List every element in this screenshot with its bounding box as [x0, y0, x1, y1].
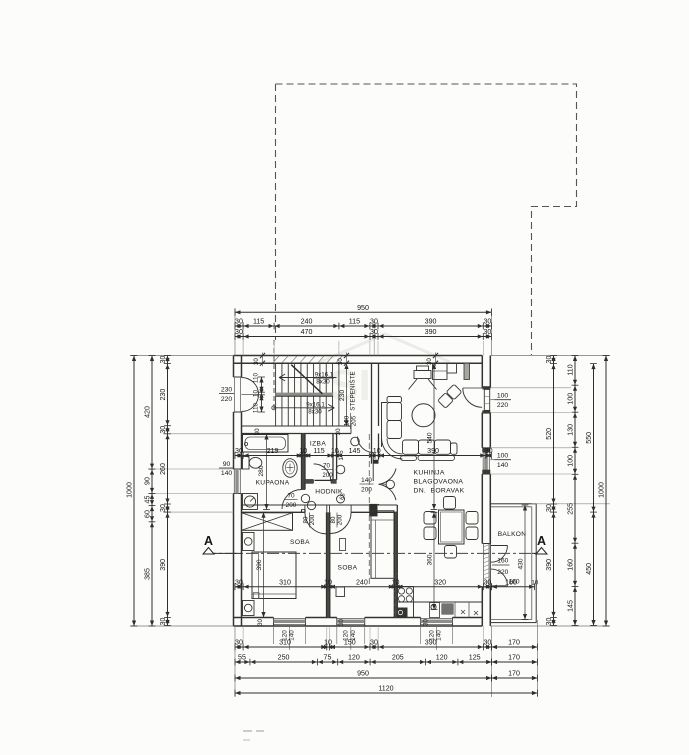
svg-text:140: 140	[221, 470, 233, 477]
wall hatch over stair	[273, 356, 279, 363]
bed soba1	[252, 552, 296, 599]
svg-text:430: 430	[518, 558, 525, 569]
living interior dim 540 vertical line	[433, 364, 435, 510]
bottom window dim 120/140 soba1	[273, 627, 275, 644]
svg-text:30: 30	[235, 639, 243, 647]
extension lines bottom	[234, 626, 236, 697]
left dimension column overall 1000	[133, 356, 135, 627]
svg-text:205: 205	[351, 415, 358, 426]
svg-text:385: 385	[144, 568, 152, 580]
svg-text:390: 390	[425, 318, 437, 326]
extension lines left	[130, 355, 234, 357]
armchair diamond 1	[438, 393, 454, 409]
balcony door jambs right wall	[482, 543, 490, 545]
svg-text:230: 230	[159, 389, 167, 401]
svg-text:220: 220	[221, 396, 233, 403]
svg-text:30: 30	[338, 619, 345, 626]
washing machine	[243, 494, 258, 510]
window right wall kitchen 100/140	[482, 447, 490, 449]
outer wall right between entry door and window	[481, 413, 483, 448]
hodnik-kitchen double door arcs	[379, 469, 397, 485]
hodnik lamp circle 1	[301, 494, 309, 502]
svg-text:100: 100	[567, 393, 575, 405]
svg-text:1000: 1000	[126, 482, 134, 498]
dining chair left bottom	[424, 527, 436, 540]
interior wall izba right vertical	[332, 434, 334, 480]
svg-text:70: 70	[287, 493, 295, 500]
wardrobe soba1 with cross	[242, 513, 293, 531]
stair mid landing gray band	[276, 393, 334, 397]
TV stand legs diagonals	[409, 379, 418, 390]
extension lines right	[490, 355, 610, 357]
svg-text:140: 140	[497, 462, 509, 469]
sofa backrest vertical	[382, 403, 388, 448]
svg-text:205: 205	[392, 654, 404, 662]
svg-text:30: 30	[545, 504, 553, 512]
sofa cushion h3	[435, 440, 451, 454]
svg-text:100: 100	[497, 453, 509, 460]
sofa corner arc outer	[382, 438, 403, 459]
soba1 interior dim 390 vertical	[263, 512, 265, 617]
outer wall right above entry door	[481, 356, 483, 388]
dashed outline of upper floor / roof projection	[276, 84, 577, 355]
stool soba2	[336, 587, 345, 597]
window bottom wall soba1 120/140	[273, 618, 275, 627]
svg-text:220: 220	[497, 569, 508, 576]
svg-text:30: 30	[257, 619, 264, 626]
svg-text:200: 200	[309, 514, 316, 525]
svg-text:115: 115	[253, 318, 264, 326]
svg-text:140: 140	[361, 477, 372, 484]
kupaona interior height dim 280	[266, 434, 268, 510]
svg-text:30: 30	[337, 358, 344, 365]
sink drainer hatched	[442, 604, 454, 615]
hodnik lamp circle 2	[307, 501, 315, 509]
svg-text:10: 10	[373, 447, 381, 455]
svg-text:30: 30	[483, 639, 491, 647]
hodnik-kitchen door knob circle	[386, 480, 394, 488]
washbasin sink oval	[283, 459, 297, 478]
svg-text:30: 30	[159, 356, 167, 364]
interior wall hodnik-kitchen with door gap	[371, 504, 373, 505]
svg-text:30: 30	[483, 328, 491, 336]
soba door jambs in wall	[304, 505, 306, 512]
svg-text:100: 100	[497, 393, 509, 400]
sofa front edge band left	[401, 456, 417, 461]
balcony slab outline	[490, 504, 536, 623]
svg-text:170: 170	[508, 639, 520, 647]
TV stand	[414, 371, 431, 379]
hodnik lamp circle 3	[337, 495, 345, 503]
short extension lines above wall	[273, 341, 275, 356]
outer wall right below balcony door	[481, 587, 483, 626]
svg-text:115: 115	[349, 318, 360, 326]
svg-text:145: 145	[567, 600, 575, 612]
svg-text:219: 219	[267, 447, 279, 455]
balcony door threshold hatch	[483, 545, 490, 584]
bottom dimension row 2	[235, 661, 492, 663]
svg-text:110: 110	[253, 372, 260, 383]
right dimension column overall 1000	[605, 356, 607, 627]
svg-text:145: 145	[349, 447, 361, 455]
balcony length dim 430 vertical	[524, 505, 526, 620]
interior wall soba2-kitchen vertical	[394, 512, 397, 617]
svg-text:390: 390	[545, 559, 553, 571]
svg-text:120: 120	[348, 654, 360, 662]
window left wall kupaona 90/140	[234, 468, 242, 470]
svg-text:30: 30	[423, 619, 430, 626]
svg-text:420: 420	[144, 406, 152, 418]
stair width dim 230 vertical line	[346, 364, 348, 427]
outer wall top	[234, 355, 483, 357]
soba2 door arc	[330, 512, 351, 533]
stair exit door leaf line	[372, 453, 374, 482]
svg-text:30: 30	[235, 447, 243, 455]
svg-text:55: 55	[238, 654, 246, 662]
outer wall right between window and balcony door	[481, 474, 483, 544]
interior wall stair-kitchen vertical upper	[371, 363, 373, 464]
desk soba2 small	[340, 539, 346, 551]
balcony french door bottom leaf and arc	[491, 585, 508, 587]
entry door frame blocks	[482, 386, 490, 389]
izba bottom wall fills	[305, 480, 314, 483]
svg-text:520: 520	[545, 428, 553, 440]
dining chair right bottom	[466, 527, 478, 540]
svg-text:STEPENIŠTE: STEPENIŠTE	[350, 371, 357, 410]
svg-text:KUPAONA: KUPAONA	[256, 480, 290, 487]
svg-text:10: 10	[324, 578, 332, 586]
french door jambs left wall stair	[234, 376, 242, 378]
svg-text:30: 30	[545, 618, 553, 626]
dining chair bottom	[445, 546, 457, 559]
interior wall hodnik bottom / soba top	[242, 504, 398, 506]
svg-text:120: 120	[436, 654, 448, 662]
round coffee table	[412, 404, 435, 427]
oven dark square	[397, 608, 408, 618]
bathtub faucet dot	[244, 442, 247, 445]
svg-text:60: 60	[144, 510, 152, 518]
toilet WC	[243, 457, 250, 470]
svg-text:360: 360	[426, 554, 433, 565]
svg-text:10: 10	[324, 639, 332, 647]
svg-text:310: 310	[279, 578, 291, 586]
svg-text:280: 280	[258, 465, 265, 476]
stair exit door arc	[358, 437, 374, 453]
svg-text:BALKON: BALKON	[498, 531, 527, 538]
balcony interior dim 160	[491, 586, 534, 588]
svg-text:450: 450	[585, 563, 593, 575]
svg-text:550: 550	[585, 432, 593, 444]
hodnik-kitchen door jamb blocks	[374, 460, 379, 464]
svg-text:470: 470	[301, 328, 313, 336]
dining table	[439, 510, 465, 544]
section line solid end right	[532, 552, 545, 554]
french double door arcs left wall	[242, 378, 259, 412]
svg-text:390: 390	[425, 639, 437, 647]
interior wall soba1-soba2 vertical	[327, 512, 330, 617]
svg-text:A: A	[537, 534, 546, 548]
svg-text:30: 30	[235, 318, 243, 326]
outer wall left segment above french door	[233, 356, 235, 378]
outer wall left segment between door and window	[233, 412, 235, 469]
closet top right A	[433, 363, 448, 379]
balcony french door top leaf and arc	[491, 545, 508, 547]
svg-text:130: 130	[567, 424, 575, 436]
svg-text:30: 30	[485, 447, 493, 455]
counter small cross marks	[461, 610, 465, 614]
svg-text:320: 320	[434, 578, 446, 586]
sofa cushion h2	[419, 440, 435, 454]
svg-text:950: 950	[357, 304, 369, 312]
svg-text:30: 30	[235, 328, 243, 336]
section line A-A dash-dot	[204, 552, 545, 554]
sofa cushion v2	[387, 421, 402, 439]
vertical dashed line through hodnik-soba2	[368, 434, 370, 586]
svg-text:390: 390	[425, 328, 437, 336]
window bottom wall soba2 120/140	[336, 618, 338, 627]
svg-text:260: 260	[159, 463, 167, 475]
top dimension row 2	[235, 325, 491, 327]
izba door handle circle	[336, 465, 345, 474]
svg-text:200: 200	[361, 487, 372, 494]
svg-text:30: 30	[235, 578, 243, 586]
svg-text:125: 125	[469, 654, 481, 662]
svg-text:240: 240	[356, 578, 368, 586]
entry door leaf panel in wall	[484, 389, 489, 410]
svg-text:30: 30	[254, 428, 261, 435]
dining chair left top	[424, 512, 436, 525]
svg-text:SOBA: SOBA	[338, 565, 358, 572]
svg-text:160: 160	[508, 579, 519, 586]
extension lines top	[234, 308, 236, 356]
short extension lines below wall	[242, 626, 244, 645]
interior wall izba bottom with door opening	[305, 479, 314, 481]
window bottom wall kitchen 120/140	[420, 618, 422, 627]
svg-text:10: 10	[299, 447, 307, 455]
top dimension 950 overall	[235, 311, 491, 313]
svg-text:30: 30	[426, 358, 433, 365]
bottom window dim 120/140 soba2	[336, 627, 338, 644]
window jamb blocks right wall	[482, 448, 490, 453]
sink faucet circle	[431, 604, 436, 609]
interior wall below stairs	[242, 425, 352, 427]
svg-text:160: 160	[567, 559, 575, 571]
svg-text:950: 950	[357, 670, 369, 678]
svg-text:30: 30	[545, 356, 553, 364]
svg-text:30: 30	[370, 318, 378, 326]
dining interior dim 360 vertical line	[433, 512, 435, 609]
bed soba2 vertical	[371, 511, 394, 579]
french door half dims 110 10 110 on left	[261, 377, 263, 412]
izba door arc	[314, 464, 331, 481]
dashed outline left side down into stair area	[275, 84, 277, 340]
svg-text:390: 390	[159, 559, 167, 571]
svg-text:45: 45	[144, 496, 152, 504]
svg-text:BLAGOVAONA: BLAGOVAONA	[414, 479, 464, 486]
nightstand 1 with lamp	[243, 533, 255, 551]
left dimension column 2	[151, 356, 153, 627]
svg-text:30: 30	[483, 318, 491, 326]
outer wall left segment below window to bottom	[233, 494, 235, 627]
svg-text:30: 30	[159, 504, 167, 512]
svg-text:170: 170	[508, 654, 520, 662]
svg-text:250: 250	[278, 654, 290, 662]
svg-text:30: 30	[370, 639, 378, 647]
svg-text:90: 90	[144, 477, 152, 485]
kitchen counter outline	[397, 601, 482, 603]
stair diagonal break line	[291, 365, 322, 394]
bed soba1 small pillow detail	[254, 593, 260, 599]
svg-text:1120: 1120	[378, 685, 393, 693]
svg-text:30: 30	[370, 328, 378, 336]
svg-text:200: 200	[322, 472, 333, 479]
sofa cushion v1	[387, 403, 402, 421]
wall hatch soba2-kitchen lower part	[394, 573, 397, 578]
svg-text:KUHINJA: KUHINJA	[414, 470, 445, 477]
interior dimension row soba widths	[235, 586, 491, 588]
left dimension column 3	[167, 356, 169, 626]
svg-text:8x30: 8x30	[308, 408, 322, 415]
svg-text:30: 30	[253, 358, 260, 365]
svg-text:100: 100	[567, 455, 575, 467]
svg-text:90: 90	[223, 461, 231, 468]
svg-text:10: 10	[331, 447, 339, 455]
bottom dimension 950	[235, 677, 492, 679]
sofa right armrest	[451, 443, 458, 454]
svg-text:10: 10	[531, 580, 539, 587]
bathtub	[243, 435, 289, 453]
svg-text:310: 310	[279, 639, 291, 647]
svg-text:8x30: 8x30	[316, 378, 330, 385]
svg-text:1000: 1000	[598, 482, 606, 498]
svg-text:255: 255	[567, 503, 575, 515]
svg-text:100: 100	[344, 415, 351, 426]
nightstand 2 with lamp	[243, 601, 255, 616]
dashed line continuation through stair with node	[273, 340, 275, 411]
entry door arc	[463, 388, 482, 407]
svg-text:150: 150	[344, 639, 356, 647]
svg-text:30: 30	[159, 618, 167, 626]
izba door threshold line	[315, 479, 333, 481]
sofa corner arc inner	[387, 439, 403, 455]
armchair diamond 2	[446, 384, 462, 400]
svg-text:30: 30	[159, 426, 167, 434]
svg-text:A: A	[204, 534, 213, 548]
soba1 door arc	[305, 512, 327, 534]
stair walk line lower with right arrow	[274, 407, 334, 409]
svg-text:230: 230	[339, 390, 346, 402]
sofa cushion h1	[403, 440, 419, 454]
scan artifact marks bottom center	[243, 730, 252, 732]
sofa front edge band right	[418, 455, 455, 460]
svg-text:230: 230	[221, 387, 233, 394]
right dimension column 2	[574, 356, 576, 626]
svg-text:200: 200	[337, 514, 344, 525]
svg-text:200: 200	[286, 502, 297, 509]
bed soba2 inner lines	[371, 519, 394, 521]
svg-text:390: 390	[427, 447, 439, 455]
stove block	[397, 587, 413, 618]
right dimension column 1	[553, 356, 555, 626]
bottom dimension row 1	[235, 646, 492, 648]
sofa top armrest	[387, 397, 402, 403]
svg-text:10: 10	[392, 578, 400, 586]
stair exit door handle circle	[351, 437, 360, 446]
stair treads	[275, 363, 277, 426]
section line solid end left	[204, 552, 242, 554]
svg-text:HODNIK: HODNIK	[315, 489, 343, 496]
outer wall bottom with window gaps	[234, 625, 483, 627]
svg-text:75: 75	[324, 654, 332, 662]
svg-text:160: 160	[497, 558, 508, 565]
svg-text:240: 240	[301, 318, 313, 326]
right dimension column 3	[593, 364, 595, 626]
interior wall kupaona-izba vertical	[302, 434, 306, 490]
svg-text:170: 170	[508, 670, 520, 678]
svg-text:DN. BORAVAK: DN. BORAVAK	[414, 488, 465, 495]
kupaona door jamb lines	[302, 489, 306, 491]
kupaona door arc	[282, 490, 302, 510]
svg-text:540: 540	[426, 432, 433, 443]
svg-text:110: 110	[567, 364, 575, 375]
interior dimension row kupaona-izba	[235, 455, 491, 457]
svg-text:9x16,1: 9x16,1	[315, 371, 334, 378]
svg-text:9x16,1: 9x16,1	[306, 401, 325, 408]
balcony railing inner lines	[490, 506, 532, 508]
bottom window dim 120/140 kitchen	[420, 627, 422, 644]
tall cupboard dark by entry	[464, 363, 470, 379]
svg-text:30: 30	[335, 428, 342, 435]
svg-text:SOBA: SOBA	[290, 539, 310, 546]
faint watermark roof chevron	[320, 334, 450, 362]
bed soba1 inner lines	[258, 552, 260, 599]
bottom dimension 1120 overall	[235, 692, 537, 694]
dining chair top	[444, 497, 456, 510]
svg-text:220: 220	[497, 402, 509, 409]
svg-text:390: 390	[256, 559, 263, 570]
stair walk line upper with left arrow	[279, 377, 336, 379]
stove burners	[398, 588, 404, 594]
svg-text:70: 70	[323, 463, 330, 470]
closet top right B small	[447, 363, 457, 373]
svg-text:115: 115	[313, 447, 324, 455]
top dimension row 3	[235, 336, 491, 338]
dining chair right top	[466, 512, 478, 525]
